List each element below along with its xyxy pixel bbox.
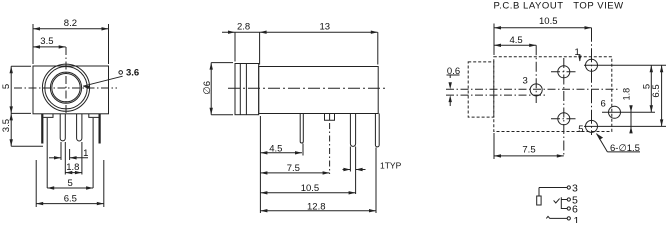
center pin right (U shape) <box>77 114 82 141</box>
arrows 7.5 pcb <box>494 154 501 157</box>
dim 5 pcb vertical <box>650 65 652 112</box>
pin3 extension b <box>355 147 357 195</box>
arrow label1 <box>578 56 581 62</box>
svg-text:8.2: 8.2 <box>64 18 77 29</box>
svg-text:P.C.B LAYOUT TOP VIEW: P.C.B LAYOUT TOP VIEW <box>494 1 624 12</box>
svg-text:3: 3 <box>572 182 578 194</box>
svg-text:3.5: 3.5 <box>1 119 12 132</box>
pin3 extension a <box>349 147 351 172</box>
hole 1 (B) <box>586 59 598 71</box>
arrows 3.5 left <box>10 113 13 120</box>
svg-text:5: 5 <box>1 84 12 89</box>
svg-text:6: 6 <box>601 99 606 110</box>
svg-text:6-∅1.5: 6-∅1.5 <box>610 143 640 154</box>
left bold pin <box>41 114 43 144</box>
pin extension line d <box>81 142 83 175</box>
schematic pin6 line <box>561 197 567 208</box>
arrows 10.5 pcb <box>494 26 501 29</box>
hole A horizontal centerline <box>551 71 578 73</box>
svg-text:13: 13 <box>320 22 331 33</box>
hole 3 <box>530 84 542 96</box>
hole 6 extension right <box>602 111 655 113</box>
svg-text:6.5: 6.5 <box>651 84 662 97</box>
dim 10.5 pcb <box>494 27 592 29</box>
schematic plug body <box>537 196 541 205</box>
pin4 extension <box>375 148 377 214</box>
label 6-phi1.5 leader <box>597 134 641 152</box>
side centerline <box>228 87 388 89</box>
svg-text:4.5: 4.5 <box>269 143 282 154</box>
svg-text:7.5: 7.5 <box>287 163 300 174</box>
hole B extension right <box>584 64 666 66</box>
dim 10.5 side <box>260 192 355 194</box>
dim 1 line <box>49 157 61 159</box>
svg-text:6.5: 6.5 <box>64 193 77 204</box>
side body <box>259 67 379 114</box>
arrows 1TYP <box>343 168 350 171</box>
barrel outer circle inner ring <box>45 67 87 109</box>
dim 12.8 side <box>260 210 376 212</box>
hole D extension right <box>584 125 666 127</box>
arrows 6.5 pcb <box>660 65 663 72</box>
side pin 4 right <box>375 114 379 147</box>
dim 1.8 line <box>65 172 82 174</box>
vertical centerline front view <box>65 47 67 114</box>
arrows dim 6.5 bottom <box>36 202 43 205</box>
svg-text:5: 5 <box>578 124 583 135</box>
center pin left (U shape) <box>60 114 65 141</box>
hole A <box>558 66 570 78</box>
arrow 6-phi1.5 leader <box>597 134 604 140</box>
pin extension line c <box>69 149 71 160</box>
pcb axis centerline <box>446 88 618 90</box>
pcb dashed body rect <box>494 57 612 132</box>
pin1 extension <box>302 144 304 156</box>
svg-text:3.5: 3.5 <box>40 36 53 47</box>
svg-text:1: 1 <box>575 47 580 58</box>
holes AC vertical centerline <box>563 58 565 156</box>
hole C horizontal centerline <box>551 118 578 120</box>
arrows dim 5 bottom <box>47 186 54 189</box>
switch centerline extension <box>329 123 331 174</box>
dim phi6 vertical <box>210 63 212 115</box>
hole 6 <box>609 106 621 118</box>
barrel outer circle <box>42 64 89 111</box>
jack hole inner ring <box>52 74 80 102</box>
dim 7.5 pcb <box>493 133 495 159</box>
right step tab <box>89 114 99 117</box>
arrows 10.5 side <box>260 191 267 194</box>
svg-text:3.6: 3.6 <box>126 67 139 78</box>
arrows phi6 <box>210 63 213 70</box>
hole 5 (D) <box>586 120 598 132</box>
svg-text:2.8: 2.8 <box>237 22 250 33</box>
svg-text:5: 5 <box>68 178 73 189</box>
right thin pin <box>92 118 94 188</box>
horizontal centerline front view <box>14 87 117 89</box>
svg-text:1: 1 <box>83 148 88 159</box>
pcb dashed tab <box>468 62 494 117</box>
arrow phi3.6 leader <box>83 86 90 89</box>
dim 0.6 leader <box>447 74 460 76</box>
dim 4.5 side <box>259 116 261 213</box>
arrows 7.5 side <box>260 171 267 174</box>
svg-text:10.5: 10.5 <box>539 16 558 27</box>
side pin 3 (U) <box>350 114 355 147</box>
holes BD vertical centerline <box>591 28 593 135</box>
pcb rows centerline <box>446 94 545 96</box>
dim 4.5 pcb <box>494 44 536 46</box>
svg-text:∅6: ∅6 <box>202 81 213 95</box>
svg-text:6: 6 <box>572 204 578 216</box>
switch box inner line <box>329 114 331 121</box>
hole C <box>558 113 570 125</box>
svg-text:7.5: 7.5 <box>522 144 535 155</box>
dim 1TYP arrows line <box>343 169 351 171</box>
side pin 1 (U) <box>300 114 303 144</box>
dim 5 left vertical <box>10 66 12 146</box>
dim 7.5 side <box>260 172 329 174</box>
pin extension line a <box>60 142 62 160</box>
phi 3.6 leader line <box>83 76 123 86</box>
dim 8.2 line <box>33 28 109 30</box>
arrows 4.5 side <box>260 151 267 154</box>
svg-text:12.8: 12.8 <box>307 202 326 213</box>
arrows 12.8 side <box>260 209 267 212</box>
schematic pin1 line <box>546 216 567 218</box>
dim 6.5 bottom line <box>36 203 104 205</box>
svg-text:1.8: 1.8 <box>66 162 79 173</box>
arrows 0.6 pcb <box>449 82 452 89</box>
arrows dim 1.8 <box>65 171 72 174</box>
svg-text:1: 1 <box>574 215 580 223</box>
switch box <box>325 114 335 121</box>
arrows 5 left <box>10 66 13 73</box>
dim 5 bottom line <box>47 187 93 189</box>
svg-text:1.8: 1.8 <box>622 88 632 101</box>
flange line a <box>239 64 241 115</box>
schematic pin3 line <box>539 187 567 189</box>
arrows 8.2 <box>33 27 40 30</box>
flange line b <box>245 64 247 115</box>
front view body <box>33 66 109 114</box>
arrows dim 1 <box>54 156 61 159</box>
schematic switch lever <box>554 199 560 203</box>
svg-text:0.6: 0.6 <box>447 66 460 77</box>
svg-text:4.5: 4.5 <box>510 35 523 46</box>
arrows 1.8 pcb <box>629 105 632 112</box>
flange outer <box>235 64 259 115</box>
svg-text:1TYP: 1TYP <box>380 160 402 170</box>
schematic pin5 line <box>561 199 567 201</box>
right bold pin <box>98 114 100 144</box>
arrows 13 <box>371 31 378 34</box>
dim 6.5 pcb vertical <box>661 65 663 126</box>
hole3 vertical centerline <box>535 45 537 103</box>
arrows 3.5 top <box>33 45 40 48</box>
jack hole circle <box>50 72 81 103</box>
schematic plug stem <box>538 188 540 197</box>
left thin pin <box>46 118 48 188</box>
dim 3.5 top line <box>33 46 66 48</box>
arrows 5 pcb <box>650 65 653 72</box>
dim 2.8 / 13 top line <box>222 31 378 33</box>
pin extension line b <box>64 142 66 175</box>
dim 1.8 pcb vertical <box>630 106 632 133</box>
svg-text:3: 3 <box>523 75 528 86</box>
arrows 4.5 pcb <box>494 44 501 47</box>
label 1 arrow <box>579 54 581 61</box>
left step tab <box>43 114 53 117</box>
arrows 2.8 <box>228 31 235 34</box>
svg-text:10.5: 10.5 <box>301 183 320 194</box>
